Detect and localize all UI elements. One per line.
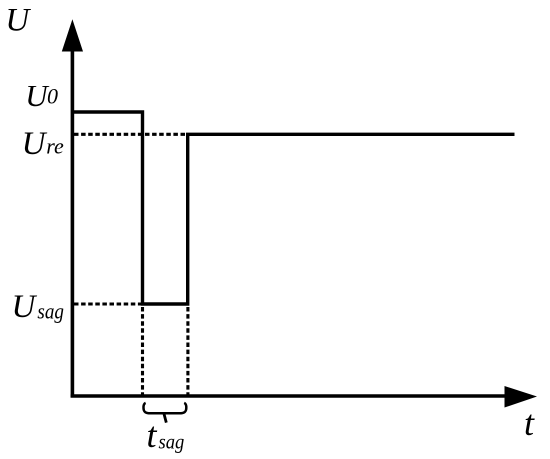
svg-text:sag: sag bbox=[37, 299, 64, 324]
svg-text:0: 0 bbox=[47, 84, 58, 109]
x-axis arrowhead bbox=[505, 386, 538, 408]
svg-text:t: t bbox=[147, 415, 158, 455]
y-axis arrowhead bbox=[62, 19, 83, 51]
svg-text:t: t bbox=[524, 403, 535, 443]
svg-text:re: re bbox=[46, 133, 64, 158]
dotted Ure reference level line bbox=[74, 133, 188, 136]
waveform: U0 level, sag drop, sag level, recovery rise, Ure level bbox=[72, 112, 514, 304]
dotted Usag reference level line bbox=[74, 302, 141, 305]
dotted vertical line at sag end bbox=[186, 307, 189, 395]
y-axis bbox=[71, 46, 75, 398]
under-brace center prong bbox=[164, 414, 166, 423]
svg-text:U: U bbox=[22, 126, 48, 162]
svg-text:sag: sag bbox=[159, 429, 185, 453]
svg-text:U: U bbox=[5, 3, 31, 39]
dotted vertical line at sag start bbox=[141, 307, 144, 395]
under-brace for sag duration bbox=[143, 403, 186, 413]
svg-text:U: U bbox=[12, 289, 38, 325]
x-axis bbox=[71, 394, 508, 398]
